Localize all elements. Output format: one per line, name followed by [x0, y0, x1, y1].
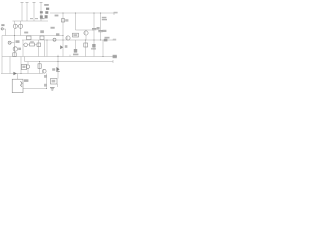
label R3 value: [16, 40, 20, 43]
resistor R3 box: [30, 43, 35, 46]
wire x38: [38, 40, 40, 57]
LED D6: [45, 15, 48, 18]
wire ground bus y56: [2, 56, 117, 58]
power rail tick V3: [33, 2, 36, 4]
wire x23: [22, 40, 24, 57]
wire mid bus y30: [76, 29, 95, 31]
capacitor E1 on x63 drop: [61, 19, 64, 22]
transistor Q2: [19, 24, 23, 28]
switch S1 inside box: [21, 81, 23, 87]
label C6: [102, 30, 106, 32]
wire x21: [20, 57, 22, 74]
diode D10 on y40: [104, 39, 108, 42]
resistor R7 box: [84, 43, 88, 47]
wire rail V4: [40, 3, 42, 22]
resistor R2 box: [40, 36, 44, 40]
symbol x41 y31: [40, 30, 44, 33]
transistor Q3: [13, 47, 17, 51]
wire x100 lower: [100, 32, 102, 40]
diode D7: [60, 45, 63, 49]
wire drop x103: [102, 40, 104, 57]
resistor R5 box: [13, 53, 16, 57]
wire x47: [46, 40, 48, 57]
wire bus y21: [13, 20, 49, 22]
label top cluster: [44, 4, 49, 6]
wire bus y61: [25, 61, 114, 63]
transistor Q6: [26, 65, 29, 68]
label D11 value: [91, 48, 96, 50]
resistor R1 box: [27, 36, 32, 40]
diode D1: [40, 11, 43, 13]
wire x44: [44, 40, 46, 57]
label E1 value: [65, 19, 68, 21]
wire top bus: [50, 12, 114, 14]
label D8: [52, 68, 55, 70]
wire drop x94: [93, 13, 95, 28]
wire pot lead: [11, 42, 15, 44]
diode D5 on rail: [53, 38, 56, 41]
label x24 y32: [24, 32, 28, 34]
label K1: [52, 80, 56, 83]
relay K1 box: [51, 79, 58, 85]
wire x2 left edge: [1, 36, 3, 74]
wire x39 sub: [39, 62, 41, 74]
label y37 right: [105, 37, 110, 39]
capacitor C6 plates: [98, 30, 102, 32]
label y40 end: [113, 39, 116, 41]
power rail tick V2: [26, 2, 29, 4]
wire x75 lower: [75, 40, 77, 49]
stub x70: [69, 55, 71, 57]
wire drop x63: [62, 13, 64, 57]
transistor Q7: [42, 69, 46, 73]
input jack J1: [1, 28, 3, 30]
wire rail V3: [33, 3, 35, 22]
label Q area: [51, 27, 55, 29]
wire x14 left chain: [14, 36, 16, 57]
diode D8 on x58: [56, 67, 59, 71]
wire x58 stub: [57, 84, 59, 87]
jack J2 upper contact: [44, 75, 47, 78]
label x56: [56, 33, 59, 35]
resistor R4 box: [37, 43, 41, 47]
label Q3: [18, 48, 21, 50]
capacitor C8 x75: [74, 49, 77, 53]
label C5: [97, 27, 100, 30]
junction dots: [14, 12, 104, 89]
wire drop x100: [100, 13, 102, 30]
label box R9: [22, 66, 25, 68]
transistor Q4: [66, 36, 70, 40]
wire drop x75: [75, 13, 77, 30]
wire rail V1: [21, 3, 23, 22]
power rail tick V1: [21, 2, 24, 4]
wire bottom-left bus y73: [1, 73, 43, 75]
wire Q cluster leads: [15, 21, 21, 36]
zener D2: [40, 15, 43, 18]
power rail tick V4: [40, 2, 43, 4]
wire box stub x17: [17, 74, 19, 80]
label C8: [73, 54, 78, 56]
label E1: [55, 15, 59, 17]
diode D4: [45, 11, 48, 14]
label D7: [65, 45, 68, 48]
resistor R6 box: [73, 33, 79, 37]
label C7 two lines: [102, 17, 107, 19]
wire x10: [9, 57, 11, 74]
transistor Q5: [84, 31, 88, 35]
diode D11 x94: [92, 44, 95, 47]
label S1: [24, 79, 28, 82]
pot P2: [8, 41, 11, 44]
wire riser x24: [24, 57, 26, 62]
wire row leads y44: [23, 44, 37, 46]
wire x28 sub: [27, 62, 29, 74]
resistor R8 box: [38, 64, 41, 69]
diode D9: [13, 72, 16, 75]
trimmer P1: [24, 43, 28, 47]
wire rail y40: [22, 39, 113, 41]
wire mid bus y35: [2, 35, 63, 37]
ground GND1: [50, 87, 55, 90]
wire x58: [57, 55, 59, 79]
box B1 (battery/switch enclosure): [12, 79, 23, 93]
wire top bus end tick: [113, 13, 115, 15]
output terminal OUT: [113, 55, 117, 58]
transistor Q1: [13, 24, 17, 28]
wire x46 lower: [46, 74, 48, 89]
wire x94 lower: [93, 30, 95, 56]
wire rail V2: [26, 3, 28, 22]
resistor R9 box: [22, 64, 27, 69]
capacitor C5 plates: [92, 28, 96, 30]
label row above y21: [30, 18, 45, 20]
label top bus end: [114, 12, 118, 14]
wire bottom bus y88: [23, 88, 47, 90]
wire y61 end tick: [112, 60, 114, 63]
diode D3: [46, 8, 49, 10]
label R6: [73, 34, 77, 36]
jack J2 lower contact: [44, 84, 47, 87]
label above R3: [30, 41, 34, 42]
wire input lead: [4, 29, 6, 36]
wire drop x85: [85, 40, 87, 57]
